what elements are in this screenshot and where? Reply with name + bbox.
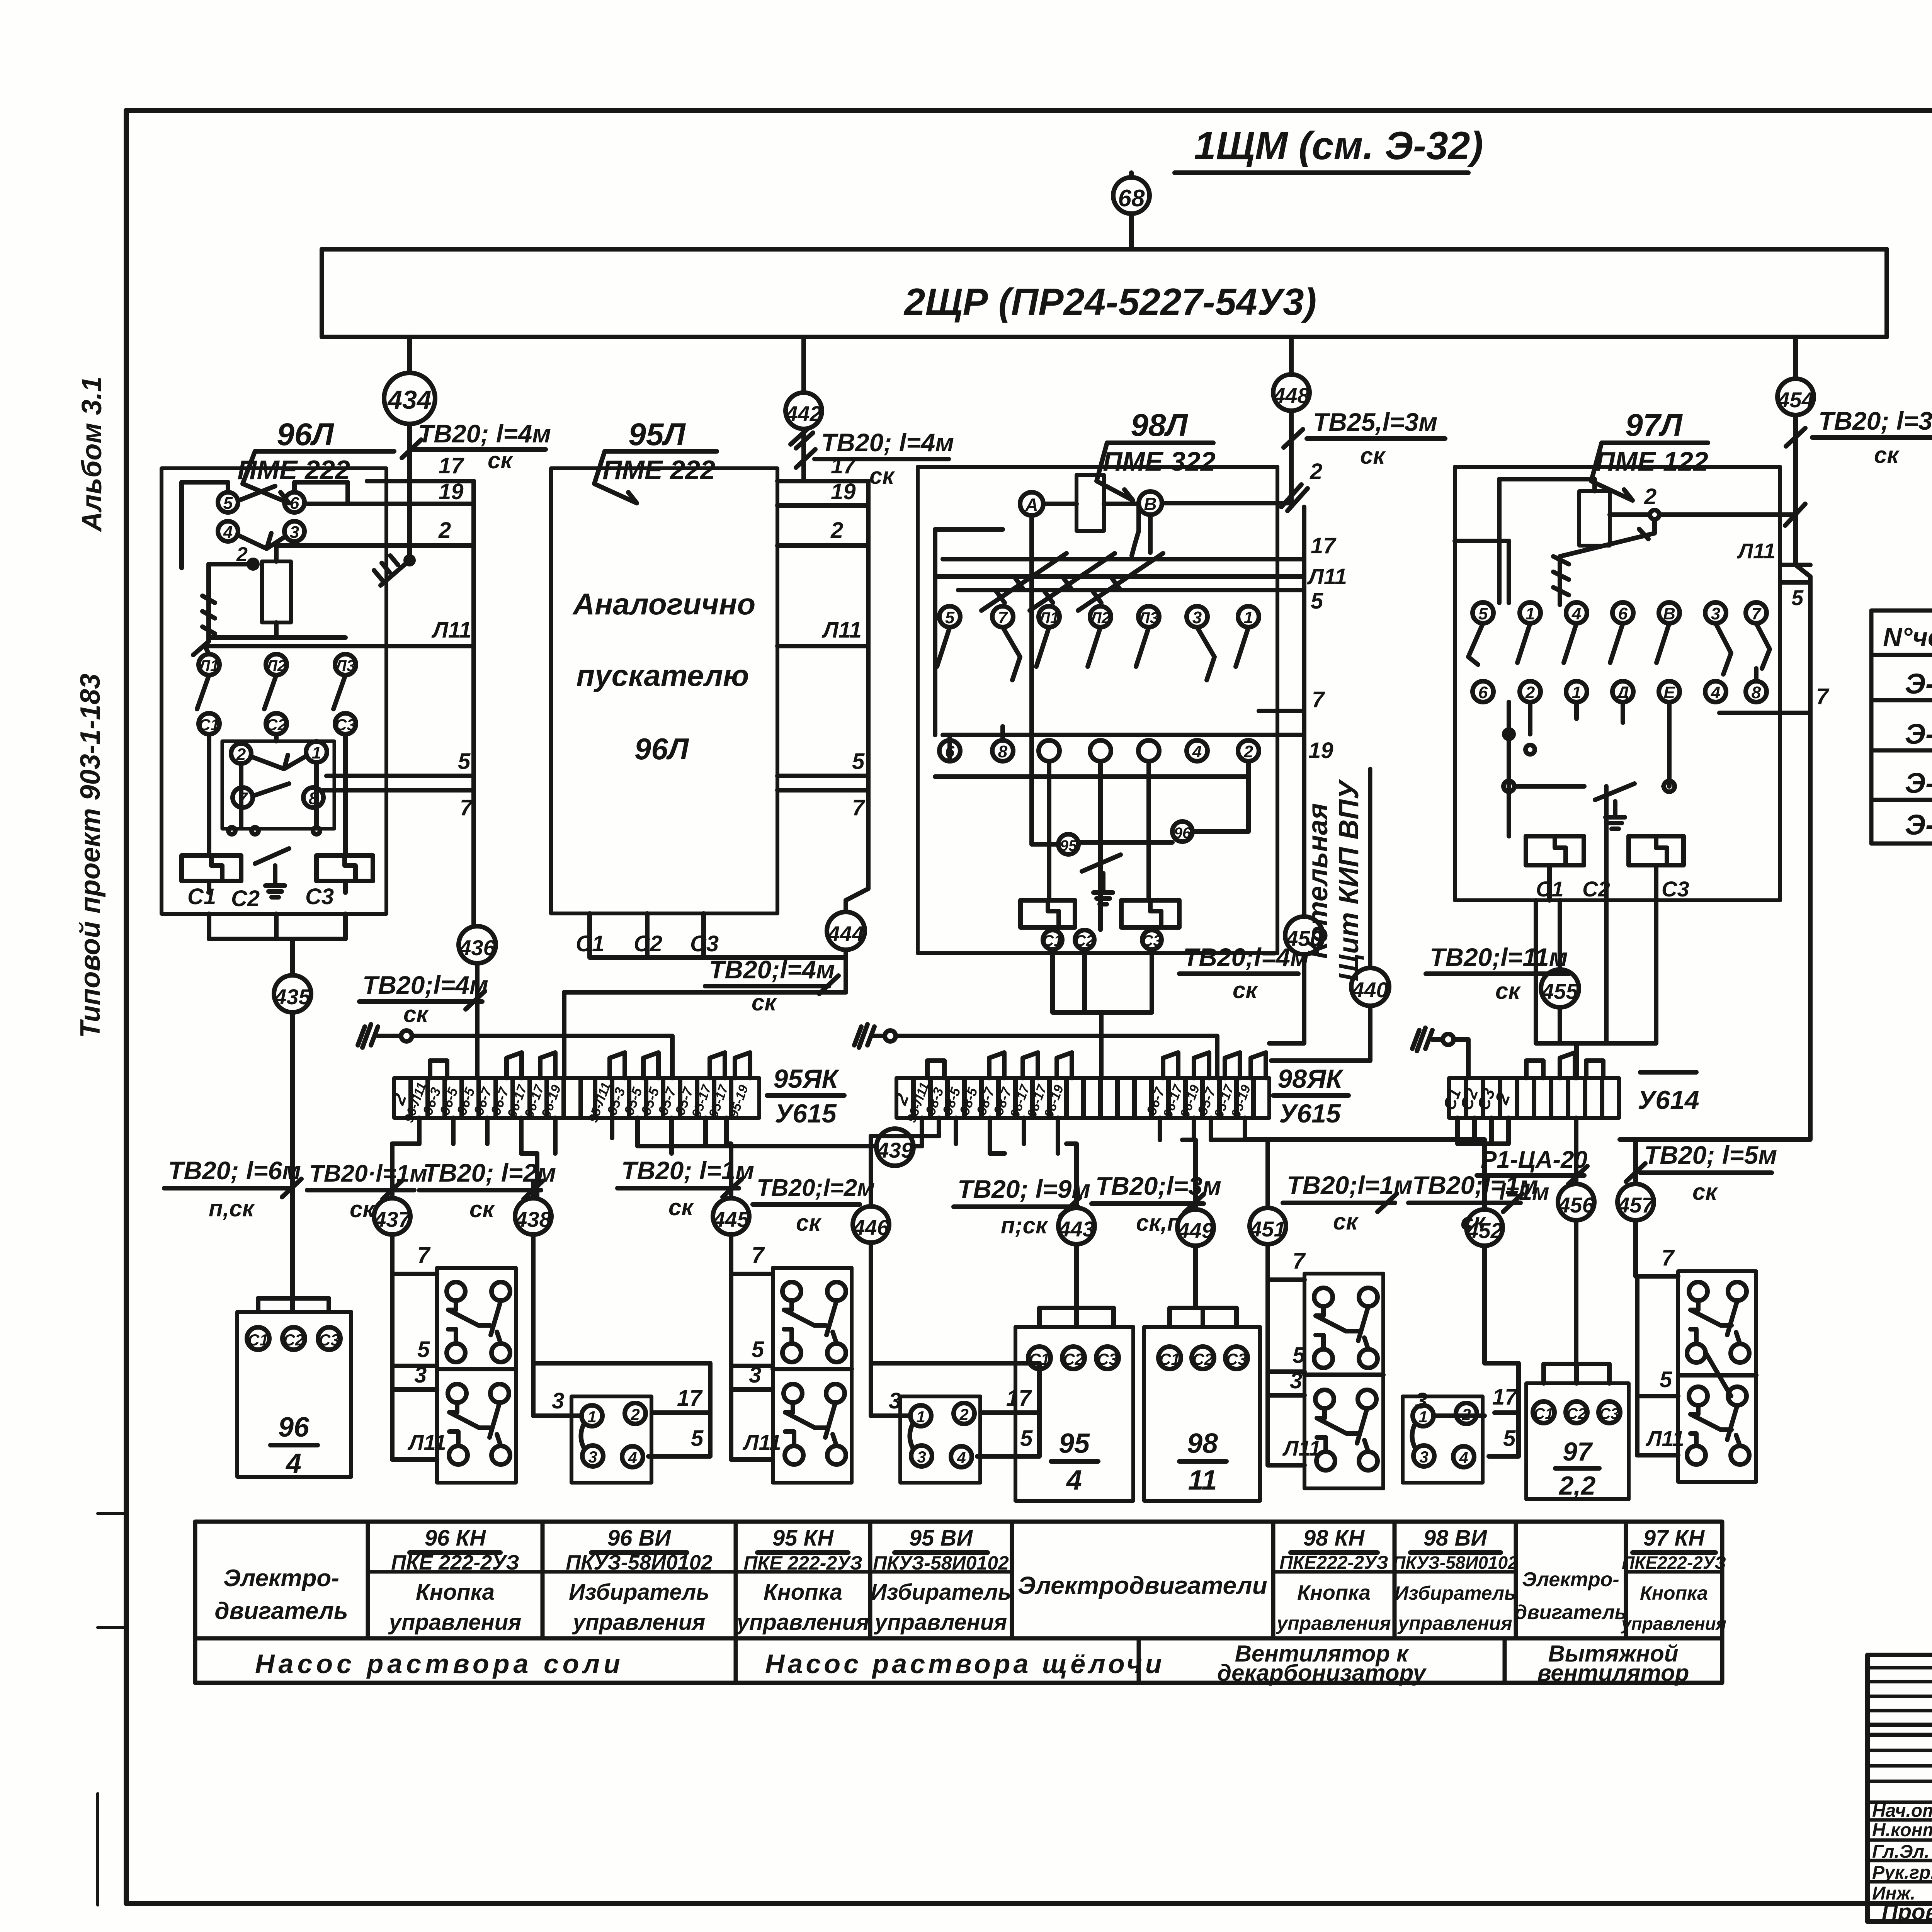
svg-text:Электро-: Электро- — [1522, 1568, 1619, 1591]
svg-text:4: 4 — [628, 1449, 637, 1467]
svg-text:ТВ20; l=5м: ТВ20; l=5м — [1644, 1141, 1777, 1169]
value ТВ20;l=4м ск (cable 444) — [705, 955, 838, 1015]
wire: 98Л outputs to strip — [1053, 949, 1152, 1078]
margin text: Типовой проект 903-1-183 — [75, 673, 106, 1038]
svg-text:Л11: Л11 — [742, 1430, 781, 1454]
label Вентилятор к декарбонизатору — [1217, 1641, 1427, 1686]
wire: 455 branch — [1558, 900, 1562, 1043]
wire: coil feed from terminal 2 — [209, 546, 474, 591]
svg-text:7: 7 — [1312, 687, 1325, 712]
net 7 stub — [323, 790, 474, 820]
cable 443 — [1058, 1208, 1095, 1244]
pin 5 — [1473, 602, 1493, 623]
wire: inner frame 98Л — [935, 529, 1248, 777]
svg-text:Кнопка: Кнопка — [764, 1580, 842, 1605]
pushbutton 96КН — [437, 1268, 516, 1483]
pin Л3 — [334, 654, 356, 675]
svg-text:7: 7 — [1293, 1248, 1306, 1274]
svg-text:l=1м: l=1м — [1499, 1179, 1549, 1205]
wire: А-coil-В and to net 2 — [1032, 503, 1291, 603]
svg-text:ПКЕ222-2УЗ: ПКЕ222-2УЗ — [1279, 1553, 1388, 1573]
pin (contact 3) — [1138, 740, 1159, 761]
terminal block 98ЯК/У615 — [890, 1078, 1269, 1124]
wire: 457 trunk and rail (97КН) — [1636, 1163, 1678, 1455]
wire: 435 riser — [290, 939, 295, 975]
svg-text:97Л: 97Л — [1625, 408, 1683, 443]
value ТВ20;l=6м п,ск — [164, 1156, 301, 1221]
svg-text:444: 444 — [827, 922, 864, 946]
svg-text:Насос раствора щёлочи: Насос раствора щёлочи — [765, 1649, 1165, 1679]
svg-text:Л3: Л3 — [1138, 609, 1159, 627]
pin Е — [1659, 681, 1680, 702]
svg-text:Е: Е — [1663, 683, 1675, 702]
svg-text:1: 1 — [1572, 683, 1581, 702]
collector rail 98Л — [1302, 507, 1306, 784]
wire: 435 down to motor 96 — [258, 1012, 329, 1312]
ground (strip У614) — [1412, 1028, 1454, 1051]
svg-text:98 КН: 98 КН — [1303, 1526, 1365, 1551]
svg-text:1: 1 — [587, 1408, 596, 1426]
svg-text:В: В — [1663, 604, 1675, 623]
svg-text:96 КН: 96 КН — [425, 1526, 486, 1551]
value ТВ20;l=4м ск (cable 450) — [1179, 943, 1309, 1003]
pin 2a — [1520, 681, 1541, 702]
label 97КН ПКЕ222-2УЗ Кнопка управления — [1621, 1526, 1726, 1634]
svg-text:ПМЕ 222: ПМЕ 222 — [602, 455, 715, 485]
selector 95ВИ — [900, 1396, 980, 1483]
svg-text:96 ВИ: 96 ВИ — [607, 1526, 672, 1551]
svg-text:5: 5 — [223, 494, 233, 513]
svg-text:7: 7 — [1752, 604, 1762, 623]
wire: 451 trunk and rail (98КН) — [1268, 1182, 1304, 1465]
svg-text:452: 452 — [1466, 1218, 1502, 1243]
svg-text:ТВ20; l=9м: ТВ20; l=9м — [957, 1175, 1090, 1203]
svg-text:Э-12: Э-12 — [1905, 668, 1932, 700]
net 5 rail — [958, 588, 1323, 614]
svg-text:97: 97 — [1563, 1437, 1593, 1466]
svg-text:ТВ20; l=4м: ТВ20; l=4м — [418, 419, 551, 448]
thermal relay 96Л right — [316, 855, 373, 881]
wire — [1129, 214, 1134, 249]
svg-text:7: 7 — [460, 795, 473, 820]
value Р1-ЦА-20 l=1м — [1477, 1146, 1587, 1205]
value ТВ20;l=2м ск — [419, 1158, 556, 1222]
pin (contact 2) — [1090, 740, 1111, 761]
aux blade 2-1 — [251, 755, 305, 769]
svg-text:С1: С1 — [187, 884, 216, 909]
wire: strip2 bottom stubs — [922, 1118, 1245, 1153]
wire: net to 439 — [657, 1144, 922, 1148]
svg-text:Аналогично: Аналогично — [572, 587, 755, 621]
svg-text:Л11: Л11 — [821, 617, 862, 643]
terminal block 95ЯК/У615 — [388, 1078, 759, 1124]
cable 448 — [1273, 374, 1310, 411]
svg-text:ПМЕ 122: ПМЕ 122 — [1595, 446, 1708, 476]
svg-text:5: 5 — [1311, 588, 1323, 614]
pin 8 — [1746, 681, 1767, 702]
title block — [1867, 1655, 1932, 1922]
svg-text:454: 454 — [1777, 388, 1813, 412]
jumper bumps strip1 — [430, 1053, 750, 1078]
svg-text:Л2: Л2 — [265, 656, 286, 675]
svg-text:2ЩР (ПР24-5227-54У3): 2ЩР (ПР24-5227-54У3) — [903, 281, 1316, 323]
pin 3 — [284, 521, 304, 542]
svg-text:Рук.гр.: Рук.гр. — [1872, 1862, 1932, 1883]
net 5 stub (97Л) — [1780, 582, 1810, 610]
label Электро-двигатель (96) — [214, 1565, 348, 1624]
svg-text:4: 4 — [1066, 1465, 1082, 1496]
svg-text:3: 3 — [1419, 1448, 1428, 1466]
value ТВ20;l=1м ск (452) — [1408, 1171, 1538, 1235]
contact 95 — [1058, 834, 1078, 854]
svg-text:5: 5 — [1503, 1426, 1516, 1451]
svg-text:7: 7 — [852, 795, 866, 820]
value ТВ20;l=1м ск (445) — [617, 1156, 754, 1220]
svg-text:3: 3 — [1192, 608, 1202, 627]
svg-text:96Л: 96Л — [277, 417, 334, 452]
svg-text:5: 5 — [945, 608, 955, 627]
svg-text:95ЯК: 95ЯК — [773, 1064, 839, 1094]
label C1 C2 C3 under 95Л — [576, 931, 719, 956]
svg-text:С2: С2 — [1063, 1350, 1084, 1368]
svg-text:С1: С1 — [1029, 1350, 1050, 1368]
wire — [1129, 173, 1134, 177]
svg-text:управления: управления — [388, 1610, 522, 1635]
svg-text:1: 1 — [1244, 608, 1253, 627]
svg-text:2: 2 — [236, 745, 246, 764]
svg-text:Избиратель: Избиратель — [569, 1580, 709, 1605]
svg-text:управления: управления — [1397, 1612, 1512, 1634]
pin 7 — [992, 606, 1013, 627]
label 96КН ПКЕ222-2УЗ Кнопка управления — [388, 1526, 522, 1635]
svg-text:Л11: Л11 — [1307, 564, 1347, 589]
margin text: Альбом 3.1 — [77, 376, 107, 532]
svg-text:1: 1 — [916, 1408, 925, 1426]
demount mark on 95Л top — [791, 429, 813, 448]
svg-text:3: 3 — [290, 523, 299, 542]
wire: 448 down — [1289, 411, 1294, 503]
pin 6 — [284, 492, 304, 513]
cable 444 — [827, 912, 865, 950]
svg-text:Э-39: Э-39 — [1905, 809, 1932, 841]
svg-text:ск: ск — [469, 1196, 495, 1222]
wire: bus drop to 442 — [801, 337, 806, 393]
label 98КН ПКЕ222-2УЗ Кнопка управления — [1276, 1526, 1391, 1634]
svg-text:вентилятор: вентилятор — [1537, 1660, 1689, 1686]
ground (strip 95ЯК) — [358, 1024, 412, 1048]
wire: strip2 top rail — [896, 1036, 1217, 1078]
svg-text:4: 4 — [1571, 604, 1581, 623]
junction dots 97Л — [1503, 730, 1675, 792]
svg-text:96Л: 96Л — [634, 732, 689, 766]
svg-text:456: 456 — [1558, 1193, 1594, 1217]
reference table — [1871, 611, 1932, 844]
svg-text:7: 7 — [417, 1243, 431, 1268]
pin 4b — [1705, 681, 1726, 702]
net 7 stub (97Л) — [1719, 684, 1830, 713]
test blade and ground 98Л — [1082, 855, 1121, 904]
svg-text:3: 3 — [414, 1362, 427, 1388]
svg-text:97 КН: 97 КН — [1643, 1526, 1705, 1551]
svg-text:ск: ск — [1874, 442, 1900, 468]
svg-text:ТВ20; l=4м: ТВ20; l=4м — [821, 428, 954, 457]
svg-text:С2: С2 — [231, 886, 260, 911]
svg-text:управления: управления — [1621, 1614, 1726, 1634]
wire: strip1 bottom stubs — [419, 1118, 726, 1153]
svg-text:С1: С1 — [248, 1331, 269, 1349]
svg-text:Кнопка: Кнопка — [1640, 1582, 1708, 1604]
net 5 stub — [327, 749, 474, 776]
cable 457 — [1617, 1184, 1655, 1220]
value ТВ20;l=3м ск,п — [1092, 1172, 1221, 1236]
pin 6 — [939, 740, 960, 761]
svg-text:ск: ск — [350, 1196, 375, 1222]
svg-text:Избиратель: Избиратель — [1395, 1582, 1516, 1604]
value ТВ20;l=4м ск (cable 434) — [402, 419, 551, 473]
svg-text:3: 3 — [749, 1362, 761, 1388]
label У614 — [1638, 1072, 1699, 1115]
row Э-39 — [1905, 809, 1932, 841]
svg-text:Л1: Л1 — [1038, 609, 1059, 627]
svg-text:Щит КИП ВПУ: Щит КИП ВПУ — [1333, 779, 1364, 981]
svg-text:5: 5 — [1660, 1367, 1672, 1392]
wire: 440 to strip2 — [1271, 1006, 1370, 1061]
svg-text:98: 98 — [1187, 1428, 1218, 1459]
svg-text:Электро-: Электро- — [223, 1565, 339, 1592]
jumper bumps strip2 — [927, 1053, 1266, 1078]
svg-text:4: 4 — [1459, 1449, 1468, 1467]
wire: 449 trunk to motor 98 — [1170, 1182, 1236, 1327]
value ТВ25,l=3м ск (cable 448) — [1284, 408, 1445, 469]
svg-text:19: 19 — [1308, 738, 1333, 763]
contact blade 4-3 — [238, 533, 284, 549]
net 2 (97Л) — [1610, 484, 1805, 526]
coil 96Л — [236, 543, 291, 622]
svg-text:445: 445 — [713, 1207, 749, 1231]
svg-text:2: 2 — [959, 1405, 968, 1423]
wire: 434 down — [374, 424, 413, 585]
svg-text:3: 3 — [588, 1448, 597, 1466]
wire: 456 trunk to motor 97 — [1544, 1163, 1609, 1383]
wire: 437 trunk and rail — [392, 1182, 437, 1459]
cable 454 — [1777, 379, 1814, 415]
net Л11 rail — [935, 564, 1347, 589]
svg-text:2: 2 — [1461, 1405, 1471, 1423]
svg-text:С1: С1 — [199, 716, 219, 734]
svg-text:5: 5 — [852, 749, 865, 774]
pin Л2 — [265, 654, 287, 675]
svg-text:С3: С3 — [1142, 932, 1162, 949]
net 2 (98Л) — [1281, 459, 1322, 511]
svg-text:95: 95 — [1060, 837, 1077, 854]
pin Л1 — [198, 654, 219, 675]
svg-text:С2: С2 — [266, 716, 287, 734]
svg-text:С1: С1 — [1534, 1405, 1553, 1422]
starter 96Л (ПМЕ 222) — [162, 417, 394, 914]
svg-text:С3: С3 — [1599, 1405, 1619, 1422]
svg-text:1: 1 — [1526, 604, 1535, 623]
svg-text:С3: С3 — [335, 716, 356, 734]
svg-text:Р1-ЦА-20: Р1-ЦА-20 — [1481, 1146, 1587, 1173]
vertical net: Котельная щит КИП ВПУ — [1303, 769, 1370, 981]
pin 5 — [218, 492, 238, 513]
svg-text:ск: ск — [1360, 443, 1386, 469]
svg-text:ск: ск — [488, 447, 513, 473]
motor 95/4 — [1015, 1327, 1133, 1501]
svg-text:управления: управления — [874, 1610, 1007, 1635]
wire: 438 trunk — [533, 1182, 710, 1456]
pin 4 — [1187, 740, 1207, 761]
pin C1 — [199, 713, 219, 734]
starter 95Л (ПМЕ 222) — [551, 417, 777, 913]
label 95ЯК/У615 — [767, 1064, 844, 1128]
svg-text:6: 6 — [1618, 604, 1628, 623]
cable 445 — [713, 1198, 749, 1235]
thermal relay 97Л left — [1526, 836, 1584, 865]
pin (contact 1) — [1039, 740, 1060, 761]
signature grid — [1867, 1655, 1932, 1903]
svg-text:ск: ск — [1333, 1209, 1359, 1235]
svg-text:ПКЕ222-2УЗ: ПКЕ222-2УЗ — [1622, 1553, 1726, 1573]
pin С3 — [1142, 930, 1162, 949]
pin 1b — [1566, 681, 1587, 702]
wire: coil bottom to contacts — [209, 622, 345, 638]
wire: bus drop to 448 — [1289, 337, 1294, 374]
svg-text:68: 68 — [1118, 185, 1145, 212]
thermal relay 96Л left — [182, 855, 241, 881]
net 19 rail — [943, 735, 1333, 763]
contact blade 5-6 — [238, 486, 275, 501]
svg-text:438: 438 — [515, 1207, 551, 1231]
cable 449 — [1177, 1209, 1214, 1246]
svg-text:7: 7 — [1662, 1245, 1675, 1270]
svg-text:С2: С2 — [1192, 1350, 1213, 1368]
svg-text:У615: У615 — [775, 1099, 837, 1128]
svg-text:ПМЕ 322: ПМЕ 322 — [1103, 446, 1216, 476]
svg-text:Кнопка: Кнопка — [416, 1580, 495, 1605]
svg-text:ск: ск — [796, 1210, 821, 1236]
svg-text:5: 5 — [1478, 604, 1488, 623]
value ТВ20;l=4м ск (cable 442) — [796, 428, 954, 489]
svg-text:435: 435 — [274, 985, 311, 1009]
svg-text:У614: У614 — [1638, 1085, 1699, 1115]
starter 98Л (ПМЕ 322) — [918, 408, 1277, 953]
svg-text:95: 95 — [1059, 1428, 1090, 1459]
svg-text:6: 6 — [1478, 683, 1488, 702]
svg-text:В: В — [1144, 494, 1156, 514]
pushbutton 95КН — [773, 1268, 852, 1483]
svg-text:3: 3 — [1290, 1368, 1302, 1393]
value ТВ20;l=4м ск (cable 436) — [359, 971, 488, 1027]
label C1 C2 C3 (97Л) — [1536, 877, 1689, 901]
svg-text:ск: ск — [1692, 1179, 1718, 1205]
cable 451 — [1249, 1208, 1286, 1244]
net Л11 stub (97Л) — [1736, 539, 1810, 565]
svg-text:4: 4 — [285, 1448, 301, 1479]
pin 3 — [1705, 602, 1726, 623]
wire: strip3 bottom stubs — [1458, 1118, 1636, 1184]
svg-text:7: 7 — [752, 1243, 765, 1268]
label Электро-двигатель (97) — [1515, 1568, 1627, 1624]
svg-text:С2: С2 — [283, 1331, 304, 1349]
coil 98Л — [1077, 475, 1104, 531]
wire: 443 trunk to motor 95 — [1039, 1182, 1114, 1327]
wire: strip3 top rail — [1454, 1039, 1468, 1078]
wire: pins to top loop — [182, 482, 348, 568]
svg-text:Типовой проект 903-1-183: Типовой проект 903-1-183 — [75, 673, 106, 1038]
svg-text:А: А — [1025, 495, 1038, 515]
value ТВ20; l=5м ск — [1626, 1141, 1777, 1205]
svg-text:Л2: Л2 — [1089, 609, 1111, 627]
label C1 C2 C3 — [187, 884, 334, 911]
pin С2 — [1075, 930, 1094, 949]
svg-text:17: 17 — [1492, 1384, 1518, 1410]
wire: 95Л outputs — [590, 913, 846, 957]
wire: inner 97Л — [1455, 541, 1756, 836]
svg-text:1: 1 — [1418, 1408, 1427, 1426]
wire: 97Л outputs — [1536, 786, 1656, 1043]
svg-text:98ЯК: 98ЯК — [1277, 1064, 1344, 1094]
svg-text:Пров. Суриков: Пров. Суриков — [1882, 1900, 1932, 1925]
svg-text:5: 5 — [691, 1426, 704, 1451]
svg-text:449: 449 — [1177, 1218, 1213, 1243]
row Э-94 — [1905, 714, 1932, 754]
svg-text:двигатель: двигатель — [214, 1598, 348, 1624]
svg-text:ТВ20; l=6м: ТВ20; l=6м — [168, 1156, 301, 1185]
cable 437 — [374, 1198, 411, 1235]
svg-text:448: 448 — [1273, 383, 1310, 408]
cable 455 — [1541, 969, 1579, 1007]
svg-text:98Л: 98Л — [1131, 408, 1188, 443]
svg-text:4: 4 — [956, 1449, 966, 1467]
wire: bus drop to 454 — [1793, 337, 1798, 379]
pin 8 — [303, 787, 323, 808]
note Пров. Суриков — [1882, 1900, 1932, 1925]
pin 1 — [306, 742, 327, 762]
svg-text:6: 6 — [290, 494, 299, 513]
pin С1 — [1043, 930, 1062, 949]
svg-text:95 КН: 95 КН — [772, 1526, 834, 1551]
pin 7 — [1746, 602, 1767, 623]
label Вытяжной вентилятор — [1537, 1641, 1689, 1686]
svg-text:ПКУЗ-58И0102: ПКУЗ-58И0102 — [873, 1552, 1009, 1574]
svg-text:Л11: Л11 — [431, 617, 471, 643]
net 17 rail — [943, 533, 1337, 559]
wire: 450 riser — [1302, 784, 1306, 917]
wire: phases into thermal — [1049, 761, 1149, 930]
pin В — [1659, 602, 1680, 623]
svg-text:ТВ20;l=4м: ТВ20;l=4м — [709, 955, 835, 984]
wire: 446 trunk (95ВИ) — [871, 1182, 1039, 1456]
svg-text:Н.контр.: Н.контр. — [1872, 1820, 1932, 1840]
svg-text:98 ВИ: 98 ВИ — [1423, 1526, 1488, 1551]
svg-text:2: 2 — [630, 1405, 639, 1423]
terminal block У614 — [1440, 1078, 1619, 1118]
svg-text:17: 17 — [1311, 533, 1337, 558]
auxiliary contact box 96Л — [222, 741, 334, 829]
wire: phase drops inside 96Л — [209, 734, 345, 855]
aux blade 7-8 — [253, 784, 289, 796]
svg-text:У615: У615 — [1279, 1099, 1341, 1128]
cable 450 — [1285, 917, 1323, 954]
pin Л2 — [1089, 606, 1111, 627]
pin 1 — [1520, 602, 1541, 623]
svg-text:2,2: 2,2 — [1558, 1471, 1596, 1500]
pin А — [1020, 492, 1043, 515]
svg-text:2: 2 — [1243, 742, 1253, 761]
value ТВ20;l=2м ск (446) — [753, 1175, 875, 1236]
value ТВ20;l=11м ск (cable 455) — [1426, 943, 1569, 1004]
